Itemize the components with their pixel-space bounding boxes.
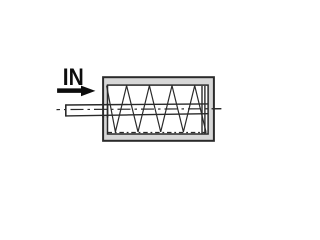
inlet pipe bore (white through wall) bbox=[67, 105, 109, 115]
inlet pipe end cap bbox=[65, 104, 67, 116]
case outer wall (gray shell) bbox=[103, 77, 214, 141]
case inner wall (cavity) bbox=[108, 85, 209, 134]
case left wall outer line over pipe bbox=[102, 104, 104, 118]
svg-text:IN: IN bbox=[63, 64, 84, 90]
inlet pipe top wall bbox=[66, 104, 208, 105]
case left wall inner line over pipe bbox=[107, 104, 109, 118]
centerline solid segment outside case right bbox=[213, 108, 222, 110]
centerline dash-dot axis bbox=[57, 108, 222, 111]
element end plate line 1 bbox=[201, 86, 203, 134]
inlet pipe bottom wall bbox=[66, 114, 208, 116]
filter element zigzag bbox=[107, 86, 206, 132]
element end plate line 2 bbox=[204, 86, 206, 134]
flow arrow bbox=[57, 86, 95, 97]
element bottom dash-dot line bbox=[108, 132, 207, 134]
